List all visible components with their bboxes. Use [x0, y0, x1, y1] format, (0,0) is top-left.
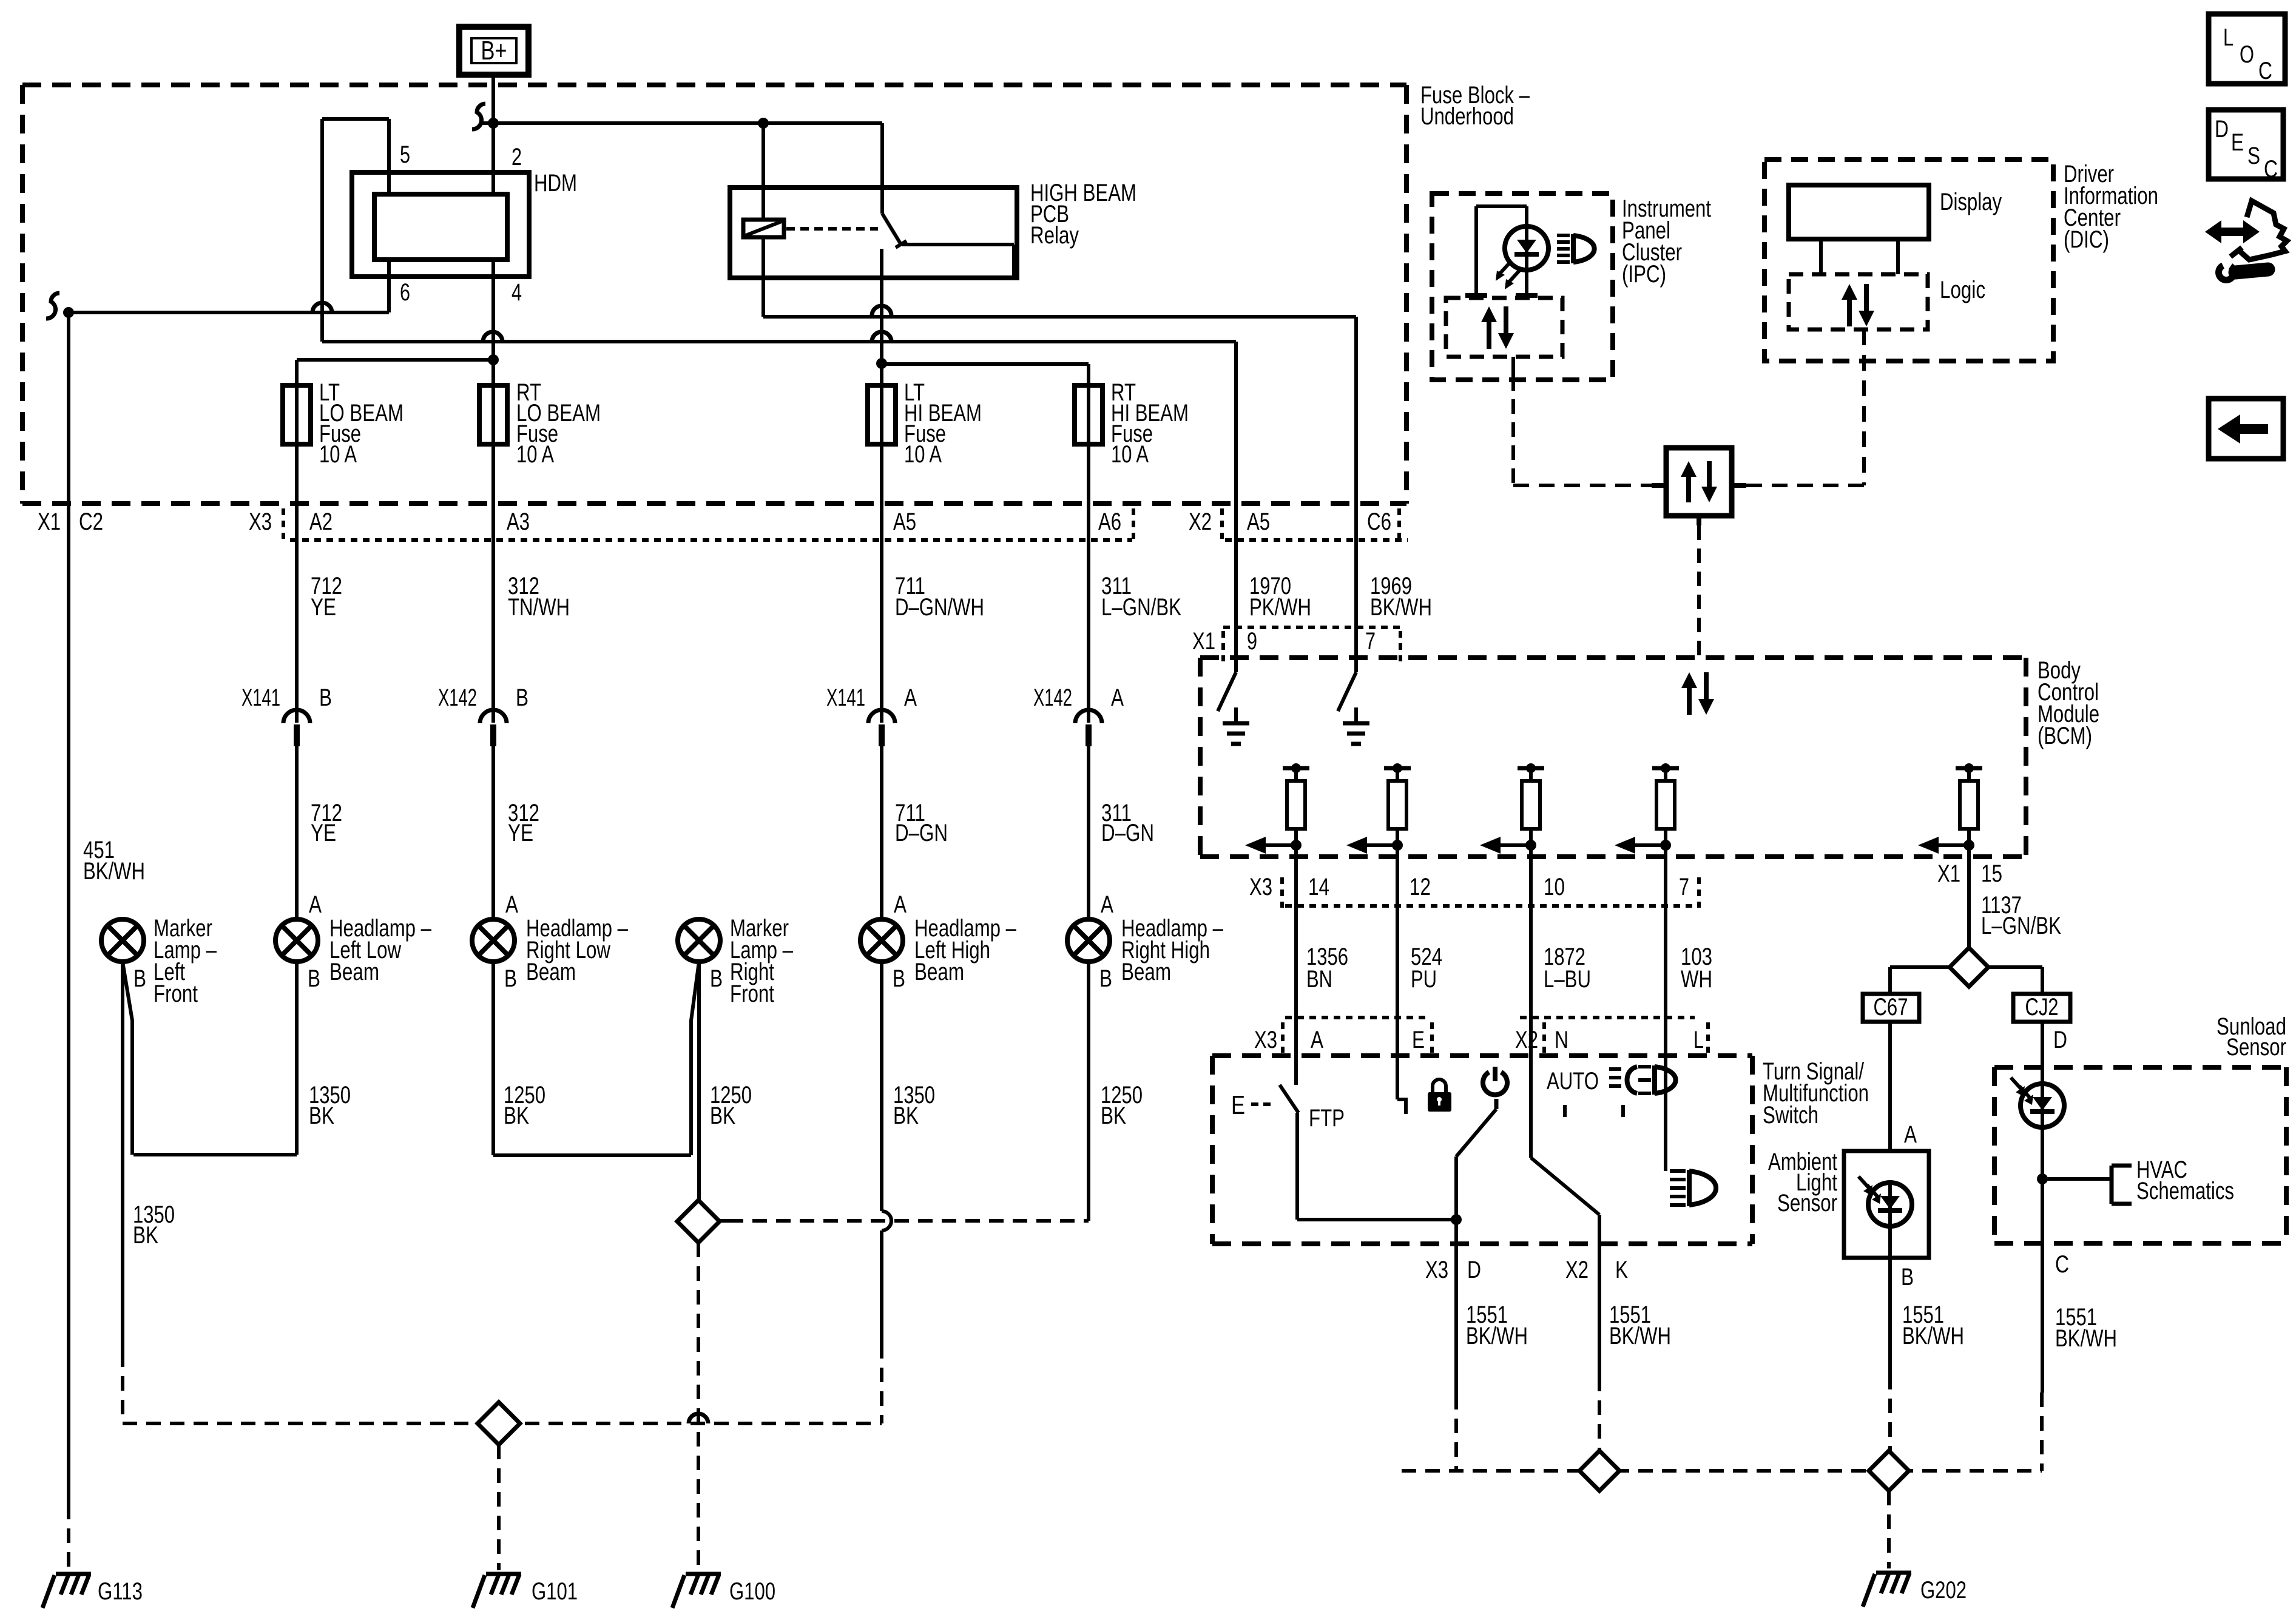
svg-text:Switch: Switch [1763, 1102, 1818, 1129]
svg-text:10 A: 10 A [516, 441, 554, 468]
svg-text:G202: G202 [1920, 1577, 1967, 1604]
svg-text:X3: X3 [249, 508, 272, 535]
svg-text:YE: YE [311, 594, 336, 621]
svg-text:X3: X3 [1254, 1027, 1277, 1053]
svg-text:10 A: 10 A [904, 441, 942, 468]
svg-text:9: 9 [1247, 628, 1257, 655]
svg-text:A: A [309, 891, 322, 918]
svg-text:PU: PU [1411, 966, 1437, 993]
svg-text:BK: BK [504, 1102, 529, 1129]
svg-text:L–GN/BK: L–GN/BK [1981, 913, 2061, 939]
svg-text:PK/WH: PK/WH [1249, 594, 1311, 621]
svg-text:C67: C67 [1874, 994, 1908, 1021]
svg-text:O: O [2240, 41, 2254, 68]
svg-text:X2: X2 [1565, 1257, 1589, 1283]
svg-text:A5: A5 [1247, 508, 1270, 535]
svg-text:B: B [504, 965, 517, 992]
svg-text:Front: Front [730, 981, 774, 1007]
svg-text:A: A [1101, 891, 1113, 918]
svg-text:A3: A3 [507, 508, 530, 535]
svg-text:15: 15 [1981, 860, 2002, 887]
svg-text:X141: X141 [241, 684, 280, 711]
svg-text:D: D [1467, 1257, 1481, 1283]
svg-text:L–BU: L–BU [1544, 966, 1591, 993]
svg-text:A: A [505, 891, 518, 918]
svg-text:E: E [2231, 129, 2244, 156]
svg-text:Front: Front [154, 981, 198, 1007]
svg-text:BK: BK [133, 1222, 158, 1249]
svg-text:B: B [710, 965, 723, 992]
svg-text:A: A [904, 684, 917, 711]
svg-text:A5: A5 [893, 508, 916, 535]
svg-text:HDM: HDM [534, 170, 577, 197]
svg-text:D–GN/WH: D–GN/WH [895, 594, 984, 621]
svg-text:X2: X2 [1515, 1027, 1538, 1053]
svg-text:A: A [1311, 1027, 1323, 1053]
svg-text:X142: X142 [438, 684, 477, 711]
svg-text:BK/WH: BK/WH [1370, 594, 1432, 621]
svg-text:(BCM): (BCM) [2038, 723, 2092, 749]
svg-text:C: C [2258, 58, 2272, 84]
svg-text:D: D [2215, 116, 2229, 143]
svg-text:AUTO: AUTO [1547, 1068, 1599, 1095]
svg-text:BK: BK [710, 1102, 735, 1129]
svg-text:K: K [1615, 1257, 1628, 1283]
svg-text:BK: BK [893, 1102, 919, 1129]
svg-text:10 A: 10 A [319, 441, 357, 468]
svg-text:BN: BN [1306, 966, 1332, 993]
svg-text:C: C [2264, 156, 2278, 183]
svg-text:B: B [516, 684, 528, 711]
svg-text:L–GN/BK: L–GN/BK [1101, 594, 1181, 621]
svg-text:7: 7 [1679, 874, 1689, 900]
svg-text:BK: BK [1101, 1102, 1126, 1129]
svg-text:B: B [319, 684, 332, 711]
svg-text:(DIC): (DIC) [2064, 226, 2109, 253]
svg-text:4: 4 [512, 279, 522, 306]
svg-text:14: 14 [1308, 874, 1329, 900]
svg-text:D–GN: D–GN [895, 820, 948, 846]
svg-text:Sensor: Sensor [1777, 1190, 1837, 1217]
svg-text:E: E [1412, 1027, 1425, 1053]
svg-text:X1: X1 [38, 508, 61, 535]
svg-text:BK/WH: BK/WH [1609, 1323, 1671, 1349]
svg-text:D–GN: D–GN [1101, 820, 1154, 846]
svg-text:2: 2 [512, 144, 522, 170]
svg-text:BK/WH: BK/WH [1466, 1323, 1528, 1349]
svg-text:X3: X3 [1249, 874, 1272, 900]
svg-text:B: B [133, 965, 146, 992]
svg-text:TN/WH: TN/WH [508, 594, 570, 621]
svg-text:A: A [1904, 1121, 1917, 1148]
svg-text:A: A [1111, 684, 1124, 711]
svg-text:B+: B+ [481, 36, 507, 66]
svg-text:10 A: 10 A [1111, 441, 1149, 468]
svg-text:BK/WH: BK/WH [83, 858, 145, 885]
svg-text:G100: G100 [729, 1578, 775, 1605]
svg-text:Logic: Logic [1940, 277, 1985, 303]
svg-text:6: 6 [400, 279, 410, 306]
svg-text:C6: C6 [1367, 508, 1391, 535]
svg-text:B: B [308, 965, 320, 992]
svg-text:G113: G113 [98, 1578, 143, 1605]
svg-text:BK: BK [309, 1102, 334, 1129]
svg-text:WH: WH [1681, 966, 1712, 993]
svg-text:YE: YE [311, 820, 336, 846]
svg-text:X2: X2 [1189, 508, 1212, 535]
svg-text:L: L [2223, 24, 2234, 51]
svg-text:E: E [1231, 1090, 1245, 1120]
svg-text:7: 7 [1365, 628, 1376, 655]
svg-text:S: S [2247, 143, 2260, 169]
svg-text:Underhood: Underhood [1420, 103, 1514, 130]
svg-text:C: C [2055, 1251, 2069, 1278]
svg-text:12: 12 [1410, 874, 1431, 900]
svg-text:L: L [1693, 1027, 1704, 1053]
svg-text:C2: C2 [79, 508, 103, 535]
svg-text:Relay: Relay [1030, 222, 1079, 249]
svg-text:(IPC): (IPC) [1622, 261, 1666, 288]
svg-text:B: B [1099, 965, 1112, 992]
svg-text:B: B [1901, 1264, 1914, 1291]
svg-text:A2: A2 [309, 508, 333, 535]
svg-text:BK/WH: BK/WH [2055, 1325, 2117, 1352]
svg-text:Sensor: Sensor [2226, 1034, 2286, 1061]
svg-text:5: 5 [400, 141, 410, 168]
svg-text:N: N [1555, 1027, 1568, 1053]
svg-text:D: D [2053, 1027, 2067, 1053]
svg-text:X1: X1 [1937, 860, 1960, 887]
svg-text:A: A [894, 891, 907, 918]
svg-text:B: B [893, 965, 905, 992]
svg-text:Beam: Beam [914, 959, 964, 985]
svg-text:Beam: Beam [329, 959, 379, 985]
svg-text:YE: YE [508, 820, 533, 846]
svg-text:A6: A6 [1098, 508, 1121, 535]
svg-text:X3: X3 [1425, 1257, 1448, 1283]
svg-text:Schematics: Schematics [2136, 1178, 2234, 1204]
svg-text:CJ2: CJ2 [2025, 994, 2059, 1021]
svg-text:Beam: Beam [526, 959, 576, 985]
svg-text:BK/WH: BK/WH [1902, 1323, 1964, 1349]
svg-text:G101: G101 [532, 1578, 578, 1605]
svg-text:10: 10 [1544, 874, 1565, 900]
svg-text:FTP: FTP [1309, 1105, 1345, 1132]
svg-text:X142: X142 [1033, 684, 1072, 711]
svg-text:X141: X141 [826, 684, 865, 711]
svg-text:Beam: Beam [1121, 959, 1171, 985]
svg-text:X1: X1 [1192, 628, 1215, 655]
svg-text:Display: Display [1940, 189, 2002, 215]
